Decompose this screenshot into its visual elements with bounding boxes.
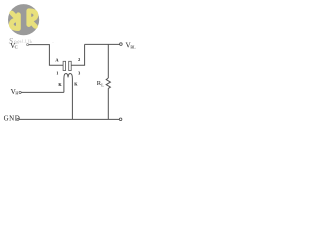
svg-text:3: 3 — [78, 70, 80, 75]
GND rail — [19, 118, 120, 120]
svg-text:L: L — [101, 82, 104, 87]
wire plate2 to right vertical, up to top rail — [71, 44, 84, 65]
filament (heater) of tube with legs — [64, 74, 73, 120]
terminal GND right — [119, 118, 122, 121]
svg-text:BL: BL — [130, 45, 136, 50]
svg-text:C: C — [15, 44, 18, 49]
watermark logo letter R left (rotated 180) — [11, 13, 18, 29]
svg-text:1: 1 — [56, 70, 58, 75]
watermark logo letter R right — [11, 11, 36, 29]
terminal VH — [19, 91, 21, 93]
terminal VC — [27, 44, 29, 46]
svg-text:..: .. — [52, 40, 54, 44]
top rail to VBL — [85, 43, 120, 45]
svg-text:11: 11 — [29, 40, 33, 44]
resistor RL zigzag — [106, 78, 110, 88]
terminal VBL — [120, 43, 123, 46]
svg-text:2: 2 — [78, 57, 80, 62]
svg-text:H: H — [15, 90, 18, 95]
tube plate 1 — [63, 61, 66, 70]
terminal GND left — [17, 118, 19, 120]
resistor RL: wire from top rail — [107, 44, 109, 78]
wire RL to GND rail — [107, 88, 109, 119]
wire VC to tube plates (right, down, right) — [29, 45, 63, 66]
wire VH to filament left leg — [21, 91, 64, 93]
tube plate 2 — [69, 61, 72, 70]
watermark logo circle — [8, 4, 39, 35]
